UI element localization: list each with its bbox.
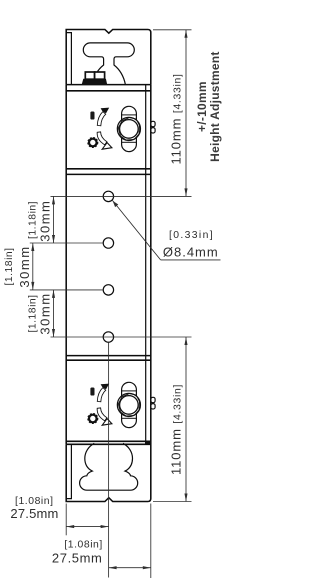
knob outer circle (117, 117, 140, 140)
ext line hole2 (30, 242, 103, 244)
knob end icon (88, 138, 98, 148)
right tab (151, 121, 155, 126)
svg-text:30mm: 30mm (17, 245, 32, 287)
knob knurl (118, 118, 139, 141)
keyhole slot (top) (83, 43, 134, 85)
ext line top edge right (153, 29, 192, 31)
up arrow band (97, 112, 105, 126)
dim line 30mm #3 (53, 290, 55, 337)
right edge column (150, 85, 152, 445)
top plate bottom edge (66, 84, 151, 86)
boundary icon2 / bottom plate (66, 440, 151, 442)
keyhole slot (bottom) (80, 443, 138, 490)
up arrow head (101, 108, 110, 114)
down arrow head (102, 143, 112, 150)
boundary icon1 / middle (66, 168, 151, 170)
right inner line (145, 85, 147, 445)
ext line hole3 (30, 289, 103, 291)
dim line 110mm bottom (185, 337, 187, 502)
boundary middle / icon2 (66, 355, 151, 357)
ext line hole4 (51, 336, 192, 338)
svg-text:Ø8.4mm: Ø8.4mm (163, 245, 219, 260)
bottom ext lines (65, 504, 67, 536)
svg-text:[0.33in]: [0.33in] (169, 230, 214, 241)
leader hole1 (113, 201, 119, 207)
knob capsule (122, 106, 137, 151)
dim line 27.5 #1 (66, 526, 108, 528)
capsule chords (122, 114, 137, 116)
svg-text:30mm: 30mm (38, 292, 53, 334)
top plate outline (66, 30, 151, 85)
top plate left flange inner line (66, 33, 71, 85)
svg-text:27.5mm: 27.5mm (10, 506, 58, 521)
left edge column (65, 85, 67, 445)
svg-text:30mm: 30mm (38, 200, 53, 242)
svg-text:[1.18in]: [1.18in] (27, 201, 38, 239)
down arrow band (97, 132, 107, 145)
svg-text:27.5mm: 27.5mm (52, 551, 103, 566)
ext line bottom edge right (153, 501, 192, 503)
svg-text:Height Adjustment: Height Adjustment (208, 51, 222, 161)
knob inner circle (120, 120, 139, 139)
hole 1 (103, 191, 113, 201)
section boundary lines (top plate / icon section 1) (66, 90, 151, 92)
hole 3 (103, 285, 113, 295)
ext line hole1 (51, 195, 192, 197)
bottom plate left flange inner line (66, 444, 71, 498)
hole 2 (103, 238, 113, 248)
clamp block base (82, 79, 107, 84)
boundary box fill (145, 441, 151, 445)
clamp block squares (85, 72, 94, 79)
svg-text:[1.18in]: [1.18in] (4, 247, 15, 285)
bar icon (90, 112, 94, 120)
svg-text:[1.18in]: [1.18in] (27, 294, 38, 332)
dim line 110mm top (185, 30, 187, 197)
bottom plate outline (66, 444, 151, 501)
bottom plate top edge (66, 443, 151, 445)
hole 4 (103, 332, 113, 342)
dim line 30mm #1 (53, 196, 55, 243)
dim line 27.5 #2 (109, 567, 151, 569)
dim line 30mm #2 (32, 243, 34, 290)
svg-text:[1.08in]: [1.08in] (64, 539, 102, 550)
